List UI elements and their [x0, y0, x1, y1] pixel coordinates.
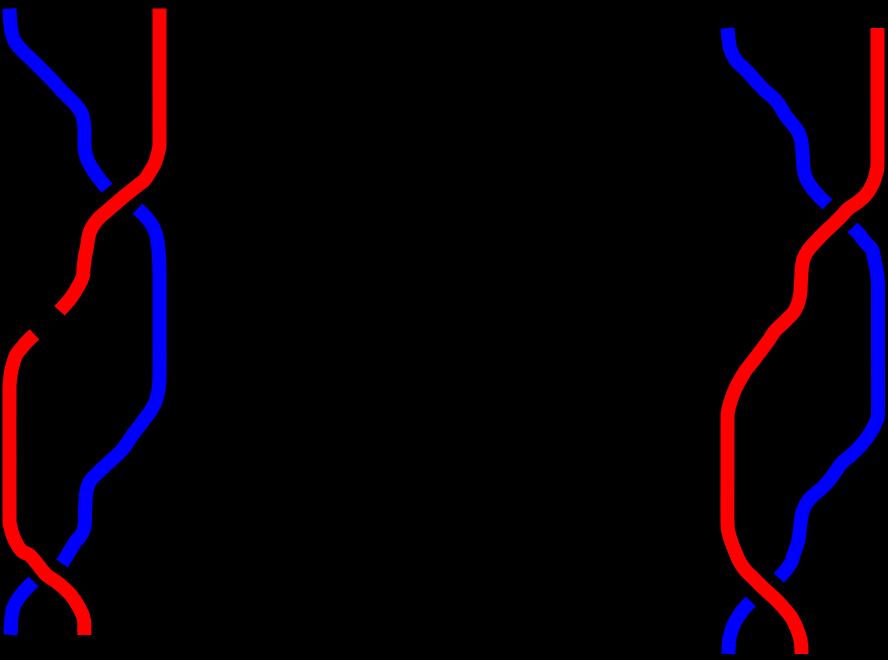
left braid: blue strand, middle segment (under red at crossing 2) [62, 209, 160, 564]
left braid: red strand, top segment (cut by hidden black strand) [60, 9, 160, 311]
left braid: blue strand, bottom segment [11, 582, 34, 635]
right braid: blue strand, middle segment (under red at crossing 2) [779, 228, 878, 579]
left braid: blue strand, top segment (under red at crossing 1) [10, 9, 108, 189]
left braid: red strand, bottom segment [9, 335, 84, 636]
right braid: blue strand, top segment (under red at crossing 1) [728, 28, 828, 205]
right braid: red strand (continuous) [727, 28, 877, 654]
right braid: blue strand, bottom segment [728, 602, 751, 655]
